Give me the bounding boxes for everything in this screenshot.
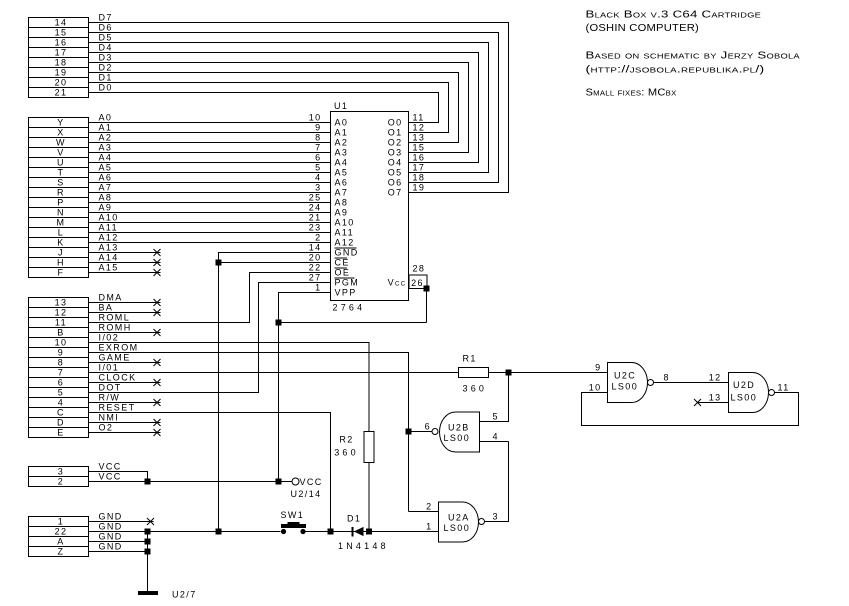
svg-text:LS00: LS00 xyxy=(612,382,639,392)
svg-text:ROML: ROML xyxy=(99,313,131,323)
svg-text:R1: R1 xyxy=(463,354,477,364)
svg-text:O5: O5 xyxy=(388,168,403,178)
svg-text:21: 21 xyxy=(309,213,322,223)
svg-text:Y: Y xyxy=(57,118,64,128)
svg-text:D7: D7 xyxy=(99,13,113,23)
wire U2C output pin 8 to U2D pin 12 xyxy=(654,382,729,384)
svg-text:10: 10 xyxy=(309,113,322,123)
svg-text:12: 12 xyxy=(413,123,426,133)
wire SW1 to D1 and U2A pin 1 xyxy=(306,531,439,533)
wire pin 26 to VPP net xyxy=(279,289,427,323)
svg-text:A5: A5 xyxy=(335,168,349,178)
wire A7 (CN2 to U1) xyxy=(89,192,331,194)
wire U2A output pin 3 to U2B pin 4 xyxy=(485,442,509,522)
svg-text:26: 26 xyxy=(411,278,424,288)
wire A3 (CN2 to U1) xyxy=(89,152,331,154)
svg-text:O1: O1 xyxy=(388,128,403,138)
svg-text:4: 4 xyxy=(315,173,321,183)
svg-text:A9: A9 xyxy=(335,208,349,218)
svg-text:8: 8 xyxy=(58,358,64,368)
wire VCC pin 3 xyxy=(89,472,148,482)
svg-text:20: 20 xyxy=(55,78,68,88)
no-connect X on A14 xyxy=(154,259,161,266)
svg-text:EXROM: EXROM xyxy=(99,343,139,353)
junction R2/D1 anode xyxy=(366,529,372,535)
U2B output bubble xyxy=(432,429,438,435)
no-connect X on BA xyxy=(154,309,161,316)
wire D6 (CN1 to U1 pin 18) xyxy=(89,33,499,183)
svg-text:10: 10 xyxy=(55,338,68,348)
D1 triangle xyxy=(354,527,364,536)
svg-text:O3: O3 xyxy=(388,148,403,158)
wire U2A input pin 2 xyxy=(409,511,439,513)
svg-text:A3: A3 xyxy=(99,143,113,153)
svg-text:A12: A12 xyxy=(99,233,119,243)
svg-text:D6: D6 xyxy=(99,23,113,33)
NAND gate U2B body (mirrored) xyxy=(440,412,480,452)
wire DMA stub xyxy=(89,302,161,304)
svg-text:A8: A8 xyxy=(335,198,349,208)
svg-text:A3: A3 xyxy=(335,148,349,158)
wire VCC rail xyxy=(89,481,293,483)
svg-text:A4: A4 xyxy=(99,153,113,163)
connector CN2 (cartridge edge, address pins Y-F) xyxy=(29,118,89,278)
svg-text:25: 25 xyxy=(309,193,322,203)
svg-text:11: 11 xyxy=(778,383,790,393)
svg-text:360: 360 xyxy=(334,448,359,458)
svg-text:A14: A14 xyxy=(99,253,119,263)
svg-text:A5: A5 xyxy=(99,163,113,173)
wire A8 (CN2 to U1) xyxy=(89,202,331,204)
overline on GND xyxy=(335,247,357,249)
svg-text:11: 11 xyxy=(413,113,425,123)
wire ROMH stub xyxy=(89,332,161,334)
svg-text:16: 16 xyxy=(413,153,426,163)
svg-text:9: 9 xyxy=(595,363,601,373)
junction RESET/ground bus xyxy=(328,529,334,535)
wire A6 (CN2 to U1) xyxy=(89,182,331,184)
svg-text:CLOCK: CLOCK xyxy=(99,373,137,383)
svg-text:LS00: LS00 xyxy=(444,433,471,443)
connector CN5 (GND pins 1,22,A,Z) xyxy=(29,517,89,557)
svg-text:A12: A12 xyxy=(335,238,355,248)
IC U1 2764 EPROM body xyxy=(331,112,409,301)
junction EXROM/U2B out xyxy=(406,429,412,435)
wire D0 (CN1 to U1 pin 11) xyxy=(89,93,439,123)
svg-text:O2: O2 xyxy=(388,138,403,148)
wire A5 (CN2 to U1) xyxy=(89,172,331,174)
svg-text:18: 18 xyxy=(413,173,426,183)
no-connect X on GND pin 1 xyxy=(147,518,154,525)
svg-text:4: 4 xyxy=(493,432,499,442)
svg-text:14: 14 xyxy=(55,18,68,28)
svg-text:SW1: SW1 xyxy=(281,510,305,520)
svg-text:A1: A1 xyxy=(335,128,349,138)
no-connect X on GAME xyxy=(154,359,161,366)
wire U1 PGM pin 27 to DOT xyxy=(89,283,331,393)
svg-text:GAME: GAME xyxy=(99,353,131,363)
svg-text:6: 6 xyxy=(425,422,431,432)
no-connect X on O2 xyxy=(154,429,161,436)
svg-text:GND: GND xyxy=(99,542,123,552)
junction VPP/pin26 net xyxy=(276,320,282,326)
svg-text:22: 22 xyxy=(55,527,68,537)
svg-text:9: 9 xyxy=(315,123,321,133)
wire GND pin 1 stub xyxy=(89,521,154,523)
svg-text:A0: A0 xyxy=(99,113,113,123)
wire A12 (CN2 to U1) xyxy=(89,242,331,244)
connector CN3 (cartridge edge, control pins) xyxy=(29,298,89,438)
svg-text:7: 7 xyxy=(58,368,64,378)
no-connect X on R/W xyxy=(154,399,161,406)
wire D3 (CN1 to U1 pin 15) xyxy=(89,63,469,153)
no-connect X on DMA xyxy=(154,299,161,306)
no-connect X on ROMH xyxy=(154,329,161,336)
wire A15 stub xyxy=(89,272,161,274)
wire A2 (CN2 to U1) xyxy=(89,142,331,144)
svg-text:11: 11 xyxy=(55,318,67,328)
wire O2 stub xyxy=(89,432,161,434)
ground symbol U2/7 xyxy=(138,591,158,595)
svg-text:LS00: LS00 xyxy=(444,523,471,533)
svg-text:O7: O7 xyxy=(388,188,403,198)
wire U2B pin 5 to R1 node xyxy=(480,373,509,422)
wire R2 to ground bus node xyxy=(368,463,370,532)
svg-text:(OSHIN COMPUTER): (OSHIN COMPUTER) xyxy=(586,23,700,34)
svg-text:(http://jsobola.republika.pl/): (http://jsobola.republika.pl/) xyxy=(586,65,765,76)
svg-text:A10: A10 xyxy=(99,213,119,223)
svg-text:A0: A0 xyxy=(335,118,349,128)
wire RESET down to switch node xyxy=(89,413,331,532)
svg-text:Vcc: Vcc xyxy=(388,278,407,288)
wire U2B pin 4 xyxy=(480,441,509,443)
no-connect X on U2D pin 13 xyxy=(694,399,701,406)
wire U2D pin 13 stub xyxy=(698,402,729,404)
svg-text:CE: CE xyxy=(335,258,350,268)
svg-text:A7: A7 xyxy=(335,188,349,198)
svg-text:A15: A15 xyxy=(99,263,119,273)
wire A0 (CN2 to U1) xyxy=(89,122,331,124)
svg-text:V: V xyxy=(57,148,64,158)
svg-text:J: J xyxy=(58,248,64,258)
svg-text:15: 15 xyxy=(55,28,68,38)
svg-text:2: 2 xyxy=(426,502,432,512)
D1 cathode bar xyxy=(352,527,354,537)
svg-text:2: 2 xyxy=(58,477,64,487)
svg-text:A9: A9 xyxy=(99,203,113,213)
svg-text:A7: A7 xyxy=(99,183,113,193)
wire D4 (CN1 to U1 pin 16) xyxy=(89,53,479,163)
svg-text:ROMH: ROMH xyxy=(99,323,132,333)
svg-text:D1: D1 xyxy=(347,514,361,524)
svg-text:19: 19 xyxy=(413,183,426,193)
junction R1/U2B pin 5 xyxy=(506,370,512,376)
svg-text:U1: U1 xyxy=(334,101,348,111)
VCC terminal circle xyxy=(292,478,299,485)
U2C output bubble xyxy=(648,380,654,386)
no-connect X on NMI xyxy=(154,419,161,426)
wire A4 (CN2 to U1) xyxy=(89,162,331,164)
svg-text:A2: A2 xyxy=(99,133,113,143)
resistor R1 xyxy=(459,368,489,378)
connector CN1 (cartridge edge, data pins 14-21) xyxy=(29,18,89,98)
svg-text:22: 22 xyxy=(309,263,322,273)
wire I/01 to R1 xyxy=(89,372,459,374)
wire U2C pin 10 feedback from U2D output xyxy=(582,393,799,426)
svg-text:R/W: R/W xyxy=(99,393,121,403)
wire ground bus (pin 22 to SW1) xyxy=(89,531,281,533)
svg-text:OE: OE xyxy=(335,268,351,278)
svg-text:5: 5 xyxy=(58,388,64,398)
svg-text:7: 7 xyxy=(315,143,321,153)
svg-text:13: 13 xyxy=(709,393,722,403)
svg-text:A4: A4 xyxy=(335,158,349,168)
svg-text:O4: O4 xyxy=(388,158,403,168)
svg-text:28: 28 xyxy=(413,264,426,274)
svg-text:6: 6 xyxy=(58,378,64,388)
junction CE/GND xyxy=(216,260,222,266)
junction ground bus/pins A,Z xyxy=(145,529,151,535)
junction ground bus/U1 GND xyxy=(216,529,222,535)
wire GAME stub xyxy=(89,362,161,364)
svg-text:Based on schematic by Jerzy So: Based on schematic by Jerzy Sobola xyxy=(586,51,801,62)
svg-text:20: 20 xyxy=(309,253,322,263)
NAND gate U2C body xyxy=(608,363,648,403)
resistor R2 xyxy=(364,432,374,463)
svg-text:RESET: RESET xyxy=(99,403,136,413)
svg-text:GND: GND xyxy=(335,248,359,258)
no-connect X on A13 xyxy=(154,249,161,256)
svg-text:D2: D2 xyxy=(99,63,113,73)
svg-text:Black Box v.3 C64 Cartridge: Black Box v.3 C64 Cartridge xyxy=(586,10,762,21)
svg-text:D3: D3 xyxy=(99,53,113,63)
svg-text:A8: A8 xyxy=(99,193,113,203)
svg-text:8: 8 xyxy=(315,133,321,143)
svg-text:I/01: I/01 xyxy=(99,363,120,373)
svg-text:DOT: DOT xyxy=(99,383,122,393)
svg-text:17: 17 xyxy=(55,48,68,58)
svg-text:L: L xyxy=(58,228,64,238)
svg-text:10: 10 xyxy=(589,383,602,393)
svg-text:F: F xyxy=(58,268,65,278)
svg-text:15: 15 xyxy=(413,143,426,153)
wire GND pin Z xyxy=(89,551,148,553)
svg-text:Z: Z xyxy=(58,547,65,557)
svg-text:2: 2 xyxy=(315,233,321,243)
svg-text:1: 1 xyxy=(58,517,64,527)
svg-text:1: 1 xyxy=(426,522,432,532)
svg-text:21: 21 xyxy=(55,88,68,98)
svg-text:Small fixes: MCbx: Small fixes: MCbx xyxy=(586,88,677,99)
svg-text:14: 14 xyxy=(309,243,322,253)
svg-text:9: 9 xyxy=(58,348,64,358)
wire D7 (CN1 to U1 pin 19) xyxy=(89,23,509,193)
svg-text:19: 19 xyxy=(55,68,68,78)
svg-text:U2/14: U2/14 xyxy=(291,489,322,499)
svg-text:1: 1 xyxy=(315,283,321,293)
wire D5 (CN1 to U1 pin 17) xyxy=(89,43,489,173)
wire D1 (CN1 to U1 pin 12) xyxy=(89,83,449,133)
NAND gate U2A body xyxy=(439,502,479,542)
svg-text:A: A xyxy=(57,537,64,547)
wire U1 GND pin 14 down to ground bus xyxy=(219,253,331,532)
svg-text:6: 6 xyxy=(315,153,321,163)
svg-text:U2/7: U2/7 xyxy=(172,590,197,600)
svg-text:P: P xyxy=(57,198,64,208)
overline on CE xyxy=(335,257,348,259)
svg-text:D0: D0 xyxy=(99,83,113,93)
wire GND pin A xyxy=(89,541,148,543)
svg-text:16: 16 xyxy=(55,38,68,48)
junction at pin 26 xyxy=(424,286,430,292)
svg-text:A11: A11 xyxy=(335,228,355,238)
svg-text:5: 5 xyxy=(315,163,321,173)
wire R1 to U2C pin 9 xyxy=(489,372,608,374)
svg-text:O6: O6 xyxy=(388,178,403,188)
svg-text:A10: A10 xyxy=(335,218,355,228)
svg-text:5: 5 xyxy=(493,412,499,422)
wire U2B output pin 6 xyxy=(409,431,433,433)
svg-text:VCC: VCC xyxy=(99,472,122,482)
svg-text:C: C xyxy=(57,408,65,418)
svg-text:T: T xyxy=(58,168,65,178)
wire BA stub xyxy=(89,312,161,314)
wire A13 stub xyxy=(89,252,161,254)
svg-text:18: 18 xyxy=(55,58,68,68)
svg-text:LS00: LS00 xyxy=(731,393,758,403)
svg-text:27: 27 xyxy=(309,273,322,283)
no-connect X on A15 xyxy=(154,269,161,276)
wire U1 VPP pin 1 to VCC rail xyxy=(279,293,331,482)
svg-text:D4: D4 xyxy=(99,43,113,53)
svg-text:1N4148: 1N4148 xyxy=(338,541,389,551)
svg-text:R: R xyxy=(57,188,65,198)
svg-text:A1: A1 xyxy=(99,123,113,133)
svg-text:2764: 2764 xyxy=(333,303,366,313)
svg-text:12: 12 xyxy=(55,308,68,318)
wire R/W stub xyxy=(89,402,161,404)
svg-text:A11: A11 xyxy=(99,223,119,233)
svg-text:3: 3 xyxy=(493,512,499,522)
svg-text:X: X xyxy=(57,128,64,138)
svg-text:U2A: U2A xyxy=(448,513,470,523)
wire A9 (CN2 to U1) xyxy=(89,212,331,214)
svg-text:S: S xyxy=(57,178,64,188)
svg-text:DMA: DMA xyxy=(99,293,123,303)
svg-text:D5: D5 xyxy=(99,33,113,43)
wire A14 stub xyxy=(89,262,161,264)
connector CN4 (VCC pins 3,2) xyxy=(29,467,89,487)
svg-text:8: 8 xyxy=(664,373,670,383)
svg-text:GND: GND xyxy=(99,512,123,522)
wire A11 (CN2 to U1) xyxy=(89,232,331,234)
wire U1 CE pin 20 xyxy=(219,262,331,264)
svg-text:NMI: NMI xyxy=(99,413,120,423)
svg-text:BA: BA xyxy=(99,303,114,313)
svg-text:GND: GND xyxy=(99,532,123,542)
svg-text:O0: O0 xyxy=(388,118,403,128)
svg-text:13: 13 xyxy=(413,133,426,143)
svg-text:D: D xyxy=(57,418,65,428)
svg-text:12: 12 xyxy=(709,373,722,383)
wire D2 (CN1 to U1 pin 13) xyxy=(89,73,459,143)
svg-text:H: H xyxy=(57,258,65,268)
svg-text:PGM: PGM xyxy=(335,278,360,288)
junction VCC pins 3/2 xyxy=(145,479,151,485)
svg-text:A13: A13 xyxy=(99,243,119,253)
svg-text:K: K xyxy=(57,238,64,248)
svg-text:U2D: U2D xyxy=(733,380,755,390)
svg-text:W: W xyxy=(56,138,66,148)
svg-text:I/02: I/02 xyxy=(99,333,120,343)
svg-text:N: N xyxy=(57,208,65,218)
svg-text:M: M xyxy=(57,218,66,228)
svg-text:A6: A6 xyxy=(335,178,349,188)
svg-text:U2C: U2C xyxy=(614,371,636,381)
svg-text:VCC: VCC xyxy=(300,477,323,487)
svg-text:3: 3 xyxy=(315,183,321,193)
no-connect X on CLOCK xyxy=(154,379,161,386)
wire down to ground symbol xyxy=(147,532,149,592)
svg-text:D1: D1 xyxy=(99,73,113,83)
wire A1 (CN2 to U1) xyxy=(89,132,331,134)
svg-text:A6: A6 xyxy=(99,173,113,183)
svg-text:A2: A2 xyxy=(335,138,349,148)
svg-text:17: 17 xyxy=(413,163,426,173)
svg-text:23: 23 xyxy=(309,223,322,233)
overline on OE xyxy=(335,267,348,269)
U2A output bubble xyxy=(479,519,485,525)
svg-text:360: 360 xyxy=(463,384,488,394)
svg-text:B: B xyxy=(57,328,64,338)
junction VPP/VCC rail xyxy=(276,479,282,485)
wire NMI stub xyxy=(89,422,161,424)
svg-text:U: U xyxy=(57,158,65,168)
U1 pin 26 box xyxy=(409,275,427,289)
svg-text:VCC: VCC xyxy=(99,462,122,472)
wire U1 OE pin 22 to ROML xyxy=(89,273,331,323)
svg-text:E: E xyxy=(57,428,64,438)
svg-text:O2: O2 xyxy=(99,423,114,433)
wire EXROM to U2B output and U2A pin 2 xyxy=(89,353,409,512)
wire CLOCK stub xyxy=(89,382,161,384)
wire I/02 to R2 xyxy=(89,343,370,432)
svg-text:4: 4 xyxy=(58,398,64,408)
svg-text:3: 3 xyxy=(58,467,64,477)
svg-text:U2B: U2B xyxy=(448,423,470,433)
svg-text:24: 24 xyxy=(309,203,322,213)
svg-text:R2: R2 xyxy=(339,435,353,445)
svg-text:VPP: VPP xyxy=(335,288,357,298)
wire A10 (CN2 to U1) xyxy=(89,222,331,224)
svg-text:13: 13 xyxy=(55,298,68,308)
NAND gate U2D body xyxy=(729,373,769,413)
U2D output bubble xyxy=(769,390,775,396)
overline on PGM xyxy=(335,277,355,279)
svg-text:GND: GND xyxy=(99,522,123,532)
